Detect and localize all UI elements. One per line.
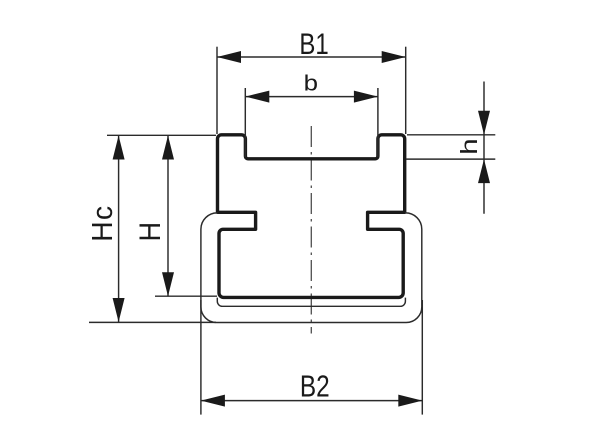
svg-text:B1: B1 — [299, 26, 328, 60]
dimension h: arrow bottom (pointing up) — [478, 159, 490, 183]
dimension Hc: arrow bottom (pointing down) — [113, 298, 125, 322]
rail inner surface (thin U below channel bottom) — [217, 298, 405, 307]
dimension B2: extension line right — [421, 300, 423, 415]
dimension Hc: extension line bottom — [89, 321, 216, 323]
dimension b: arrow right — [354, 91, 378, 103]
dimension H: dimension line — [167, 136, 169, 297]
dimension b: arrow left — [245, 91, 269, 103]
dimension h: extension line top — [407, 134, 495, 136]
dimension b: extension line right — [377, 88, 379, 157]
dimension h: dimension line — [483, 82, 485, 214]
dimension h: extension line bottom — [406, 158, 495, 160]
profile body (thick outline of guide profile) — [218, 135, 405, 298]
svg-text:b: b — [304, 71, 318, 96]
svg-text:B2: B2 — [300, 369, 330, 403]
dimension H: arrow bottom (pointing down) — [162, 272, 174, 296]
dimension B1: arrow right — [382, 51, 406, 63]
dimension Hc: arrow top (pointing up) — [113, 136, 125, 160]
dimension Hc: dimension line — [118, 136, 120, 323]
svg-text:H: H — [134, 222, 167, 242]
dimension H: extension line bottom — [155, 295, 217, 297]
dimension B2: dimension line — [201, 400, 422, 402]
dimension B1: dimension line — [217, 56, 406, 58]
svg-text:Hc: Hc — [87, 205, 119, 242]
dimension Hc: extension line top (shared with H) — [107, 134, 216, 136]
dimension B2: extension line left — [200, 300, 202, 415]
dimension H: arrow top (pointing up) — [162, 136, 174, 160]
dimension b: extension line left — [244, 88, 246, 157]
centerline (vertical dash-dot axis) — [310, 126, 312, 334]
mounting rail shell (thin outer contour, rounded corners) — [201, 213, 422, 323]
svg-text:h: h — [456, 138, 482, 154]
dimension B1: extension line left — [216, 47, 218, 134]
dimension B1: arrow left — [217, 51, 241, 63]
dimension B1: extension line right — [405, 47, 407, 134]
dimension h: arrow top (pointing down) — [478, 111, 490, 135]
dimension b: dimension line — [245, 96, 378, 98]
dimension B2: arrow left — [201, 395, 225, 407]
dimension B2: arrow right — [398, 395, 422, 407]
